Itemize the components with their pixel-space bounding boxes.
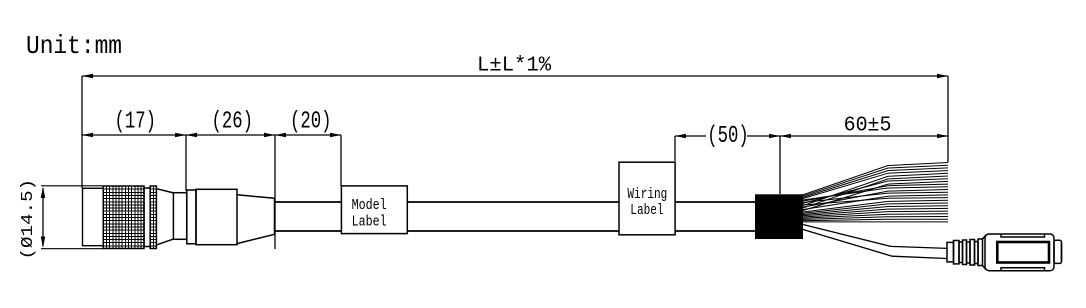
connector nose — [83, 188, 104, 245]
jack rib 4 — [978, 239, 983, 266]
extension line x=275 — [274, 135, 276, 249]
jack cable top wire — [803, 225, 947, 249]
dimension 60±5 line — [780, 135, 948, 137]
dimension L±L*1% right arrow — [937, 74, 948, 79]
jack rib 2 — [963, 240, 967, 265]
jack nub step — [1061, 243, 1063, 261]
svg-text:Unit:mm: Unit:mm — [26, 33, 122, 62]
connector flange ring — [187, 190, 196, 244]
model label box — [341, 186, 407, 234]
wire fan — [801, 163, 948, 222]
connector ribbed ring stripes — [150, 186, 156, 249]
dimension Ø14.5 extension lines — [41, 186, 103, 249]
connector barrel — [196, 189, 237, 244]
svg-text:Label: Label — [630, 201, 663, 218]
dimension (26) arrows — [186, 133, 275, 138]
connector ring A — [144, 188, 150, 247]
svg-text:L±L*1%: L±L*1% — [477, 54, 552, 77]
jack recess 2 — [967, 242, 971, 263]
connector ribbed ring outline — [150, 186, 156, 249]
svg-text:(20): (20) — [290, 109, 331, 135]
dimension (50) arrows — [675, 134, 780, 139]
jack bottom recess — [1001, 268, 1045, 271]
jack body — [985, 234, 1054, 271]
dimension L±L*1% line — [82, 75, 948, 77]
jack cable bottom wire — [803, 230, 947, 259]
dimension Ø14.5 arrows — [41, 187, 46, 248]
extension line x=186 — [185, 135, 187, 191]
svg-text:Wiring: Wiring — [627, 185, 667, 202]
svg-text:(26): (26) — [212, 109, 253, 135]
extension line x=675 — [674, 136, 676, 161]
dimension (26) line — [186, 134, 275, 136]
cable segment 1 — [275, 202, 341, 231]
dimension 60±5 arrows — [780, 134, 948, 139]
connector cone D — [237, 195, 274, 244]
cable segment 2 — [407, 202, 619, 231]
jack top recess — [1001, 234, 1045, 237]
dimension (50) line — [675, 135, 780, 137]
svg-text:Label: Label — [352, 214, 387, 231]
cable end block — [755, 194, 803, 239]
svg-text:(50): (50) — [707, 124, 748, 150]
jack recess 1 — [959, 242, 963, 263]
connector knurl grid — [103, 186, 144, 249]
jack window — [997, 242, 1049, 263]
dimension L±L*1% left arrow — [82, 74, 93, 79]
extension line x=341 — [340, 135, 342, 186]
connector cone B — [156, 189, 173, 245]
dimension (20) arrows — [275, 133, 341, 138]
jack recess 3 — [975, 242, 979, 264]
connector knurled ring outline — [103, 186, 144, 249]
svg-text:(Ø14.5): (Ø14.5) — [19, 179, 38, 260]
connector waist ring — [173, 193, 186, 240]
wiring label box — [619, 162, 675, 235]
extension line x=780 — [779, 136, 781, 194]
cable segment 3 — [675, 202, 755, 231]
jack rib 1 — [954, 241, 960, 264]
dimension (17) line — [82, 134, 186, 136]
svg-text:(17): (17) — [115, 109, 156, 135]
dimension (20) line — [275, 134, 341, 136]
jack nub — [1054, 240, 1062, 263]
jack collar — [947, 242, 954, 262]
jack rib 3 — [970, 240, 975, 266]
svg-text:60±5: 60±5 — [844, 114, 892, 138]
dimension Ø14.5 line — [42, 188, 44, 247]
jack bell — [983, 235, 987, 270]
svg-text:Model: Model — [352, 198, 387, 215]
extension line left (x=82) — [81, 76, 83, 188]
dimension (17) arrows — [82, 133, 186, 138]
extension line right (x=948) — [947, 76, 949, 162]
